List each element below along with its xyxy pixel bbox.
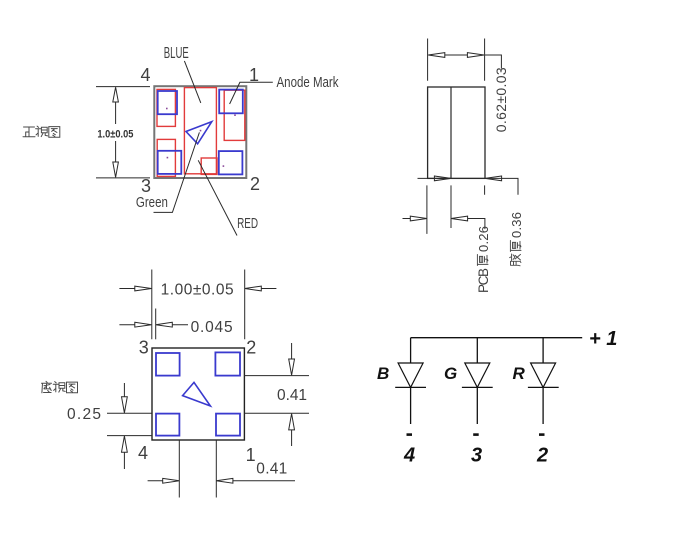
diode R anode wire bbox=[542, 338, 544, 363]
svg-text:G: G bbox=[444, 364, 457, 383]
diode R cathode wire bbox=[542, 387, 544, 424]
label 底视图 (bottom view, hand-drawn CJK strokes) bbox=[42, 381, 78, 393]
svg-text:1.00±0.05: 1.00±0.05 bbox=[161, 281, 234, 298]
svg-text:0.62±0.03: 0.62±0.03 bbox=[493, 67, 509, 132]
dim 0.41 right extension lines bbox=[244, 376, 309, 414]
leader Anode Mark bbox=[230, 82, 273, 104]
svg-text:1: 1 bbox=[246, 445, 256, 465]
pad 1 front (top-right blue) bbox=[219, 90, 243, 114]
dim 0.41 right line with outside arrows bbox=[289, 343, 295, 446]
side body outline bbox=[428, 87, 485, 178]
diode R bbox=[528, 363, 559, 387]
leader RED bbox=[198, 160, 237, 235]
front package outline bbox=[154, 86, 246, 178]
dim 1.0±0.05 line with arrows bbox=[113, 87, 119, 177]
dim text 胶厚0.36 (rotated, hand-drawn CJK) bbox=[509, 212, 524, 266]
PCB / glue divider line bbox=[450, 87, 452, 178]
pad 3 front (bottom-left blue) bbox=[158, 151, 182, 174]
svg-text:Anode Mark: Anode Mark bbox=[277, 74, 339, 91]
bottom package outline bbox=[152, 348, 244, 440]
dim 0.41 bottom line with outside arrows bbox=[148, 478, 295, 483]
diode B anode wire bbox=[410, 338, 412, 363]
pad 2 front (bottom-right blue) bbox=[219, 151, 243, 174]
svg-text:B: B bbox=[377, 364, 389, 383]
svg-text:BLUE: BLUE bbox=[164, 45, 189, 62]
label 正视图 (front view, hand-drawn CJK strokes) bbox=[23, 126, 60, 137]
red die area top-right bbox=[224, 90, 245, 140]
svg-text:0.36: 0.36 bbox=[509, 212, 524, 238]
svg-text:2: 2 bbox=[246, 338, 256, 358]
svg-text:R: R bbox=[513, 364, 526, 383]
svg-text:2: 2 bbox=[536, 445, 548, 467]
red die area RED (bottom-right small) bbox=[201, 158, 217, 174]
minus sign pin 3 bbox=[473, 433, 479, 436]
svg-text:3: 3 bbox=[139, 338, 149, 358]
svg-text:4: 4 bbox=[140, 65, 150, 85]
minus sign pin 2 bbox=[539, 433, 545, 436]
svg-text:3: 3 bbox=[471, 445, 482, 467]
red die area bottom-left bbox=[157, 139, 175, 176]
dim 1.00±0.05 extension lines bbox=[152, 270, 245, 340]
pad 1 bottom (bottom-right) bbox=[216, 414, 240, 436]
dim 0.045 extension line (pad edge) bbox=[155, 309, 157, 340]
svg-text:PCB: PCB bbox=[476, 268, 491, 293]
green die triangle (front) bbox=[186, 122, 212, 144]
diode G cathode wire bbox=[476, 387, 478, 424]
pad 4 bottom (bottom-left) bbox=[156, 414, 179, 436]
diode B bbox=[395, 363, 426, 387]
leader Green bbox=[154, 132, 200, 212]
dim 0.045 line with arrows bbox=[119, 322, 188, 327]
svg-text:4: 4 bbox=[403, 445, 415, 467]
svg-text:0.41: 0.41 bbox=[277, 387, 307, 404]
dim 0.62±0.03 line with inside-out arrows bbox=[428, 53, 501, 69]
dim 0.25 left line with outside arrows bbox=[122, 383, 128, 469]
pad 3 bottom (top-left) bbox=[156, 353, 180, 376]
net +1 common anode bus bbox=[411, 337, 583, 339]
svg-text:+ 1: + 1 bbox=[589, 328, 617, 350]
pad 2 bottom (top-right) bbox=[215, 352, 240, 375]
pad 4 front (top-left blue) bbox=[158, 91, 177, 114]
dim 0.62±0.03 extension lines bbox=[428, 39, 485, 81]
red die area BLUE (center tall rect) bbox=[184, 88, 216, 174]
svg-text:0.25: 0.25 bbox=[67, 406, 101, 423]
dim 胶厚0.36 line (at body bottom) with arrows bbox=[418, 176, 519, 195]
svg-text:1.0±0.05: 1.0±0.05 bbox=[97, 128, 133, 140]
green die triangle (bottom view) bbox=[183, 382, 211, 406]
svg-text:4: 4 bbox=[138, 443, 148, 463]
svg-text:0.045: 0.045 bbox=[191, 319, 233, 336]
diode G anode wire bbox=[476, 338, 478, 363]
svg-text:RED: RED bbox=[237, 215, 258, 232]
dim 0.25 left extension lines bbox=[107, 413, 152, 435]
svg-text:0.41: 0.41 bbox=[256, 461, 287, 478]
dim text PCB厚0.26 (rotated, 厚 hand-drawn) bbox=[476, 226, 491, 293]
dim 1.0±0.05 extension line top bbox=[96, 86, 150, 88]
red die area top-left bbox=[157, 89, 175, 126]
svg-text:3: 3 bbox=[141, 176, 151, 196]
diode B cathode wire bbox=[410, 387, 412, 424]
diode G bbox=[462, 363, 493, 387]
extension lines below body bbox=[427, 185, 485, 234]
dim 1.0±0.05 extension line bottom bbox=[96, 177, 150, 179]
minus sign pin 4 bbox=[407, 433, 413, 436]
svg-text:0.26: 0.26 bbox=[476, 226, 491, 252]
pad center dots bbox=[166, 108, 236, 167]
dim PCB厚0.26 line with arrows and leader bbox=[403, 216, 485, 229]
svg-text:2: 2 bbox=[250, 174, 260, 194]
leader BLUE bbox=[184, 61, 200, 103]
dim 0.41 bottom extension lines bbox=[179, 440, 216, 498]
dim 1.00±0.05 line with outside arrows bbox=[119, 286, 276, 291]
svg-text:Green: Green bbox=[136, 194, 168, 211]
